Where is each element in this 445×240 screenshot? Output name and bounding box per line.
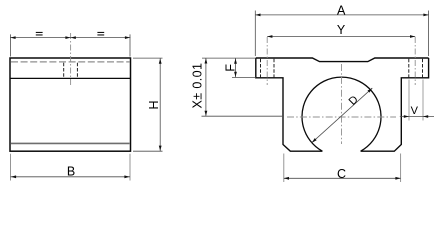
svg-text:V: V xyxy=(411,105,419,117)
left wing hole centerline xyxy=(266,37,268,85)
left view hidden hole edge left xyxy=(63,63,65,78)
arrow center pointing right xyxy=(65,36,70,39)
left view equal-spacing dimension line xyxy=(10,37,131,39)
dim ext line left top xyxy=(10,34,12,56)
equal symbol right xyxy=(97,32,104,36)
svg-text:Y: Y xyxy=(337,23,346,37)
dimension Y xyxy=(267,36,415,38)
svg-text:A: A xyxy=(337,3,346,17)
right view top edge with recess xyxy=(256,58,429,62)
dimension V xyxy=(408,80,410,121)
dimension H xyxy=(133,57,163,59)
left view hole centerline xyxy=(70,33,72,87)
left view hidden hole edge right xyxy=(76,63,78,78)
dimension F xyxy=(232,77,256,79)
svg-text:C: C xyxy=(337,167,346,181)
svg-text:H: H xyxy=(147,100,161,109)
dimension X ± 0.01 xyxy=(202,57,256,59)
left view lower gray line xyxy=(11,142,130,144)
dimension D diagonal xyxy=(312,88,373,143)
right wing hole hidden edges xyxy=(408,59,410,78)
left view top band bottom edge xyxy=(10,77,131,79)
right view outline left part xyxy=(256,58,323,151)
left wing hole hidden edges xyxy=(260,59,262,78)
arrow center pointing left xyxy=(71,36,76,39)
left view hidden rail edge (gray dashed) xyxy=(11,61,130,63)
svg-text:B: B xyxy=(67,165,75,179)
dimension B xyxy=(10,154,12,181)
dimension A xyxy=(254,11,256,57)
bore vertical centerline xyxy=(341,64,343,144)
svg-text:X± 0.01: X± 0.01 xyxy=(191,63,205,109)
dim ext line right top xyxy=(129,34,131,56)
equal symbol left xyxy=(36,32,43,36)
right wing hole centerline xyxy=(414,37,416,85)
svg-text:F: F xyxy=(223,64,237,72)
right view outline right part xyxy=(361,58,429,151)
arrow right end xyxy=(125,36,130,39)
arrow left end xyxy=(10,36,15,39)
dimension C xyxy=(283,154,285,183)
bore horizontal centerline xyxy=(287,116,396,118)
left view body outline xyxy=(10,58,131,151)
bore circle arc xyxy=(302,77,381,151)
